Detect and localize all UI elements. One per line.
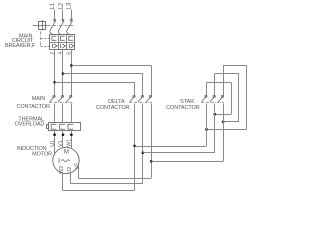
svg-text:L3: L3 [67,2,73,9]
svg-text:MOTOR: MOTOR [32,152,52,158]
svg-text:U1: U1 [50,140,56,147]
svg-text:BREAKER,F: BREAKER,F [5,43,36,49]
svg-text:L2: L2 [58,2,64,9]
svg-text:V1: V1 [58,140,64,147]
svg-text:CONTACTOR: CONTACTOR [166,105,200,111]
svg-text:L1: L1 [50,2,56,9]
svg-text:4: 4 [58,52,64,55]
svg-text:CONTACTOR: CONTACTOR [16,104,50,110]
svg-text:3: 3 [58,159,61,165]
svg-text:M: M [64,149,69,155]
svg-text:W1: W1 [67,139,73,147]
svg-text:V2: V2 [75,163,81,170]
svg-text:U2: U2 [67,167,73,174]
svg-text:MAIN: MAIN [32,96,45,102]
svg-text:W2: W2 [59,166,65,174]
svg-text:OVERLOAD: OVERLOAD [15,122,45,128]
svg-text:CONTACTOR: CONTACTOR [96,105,130,111]
